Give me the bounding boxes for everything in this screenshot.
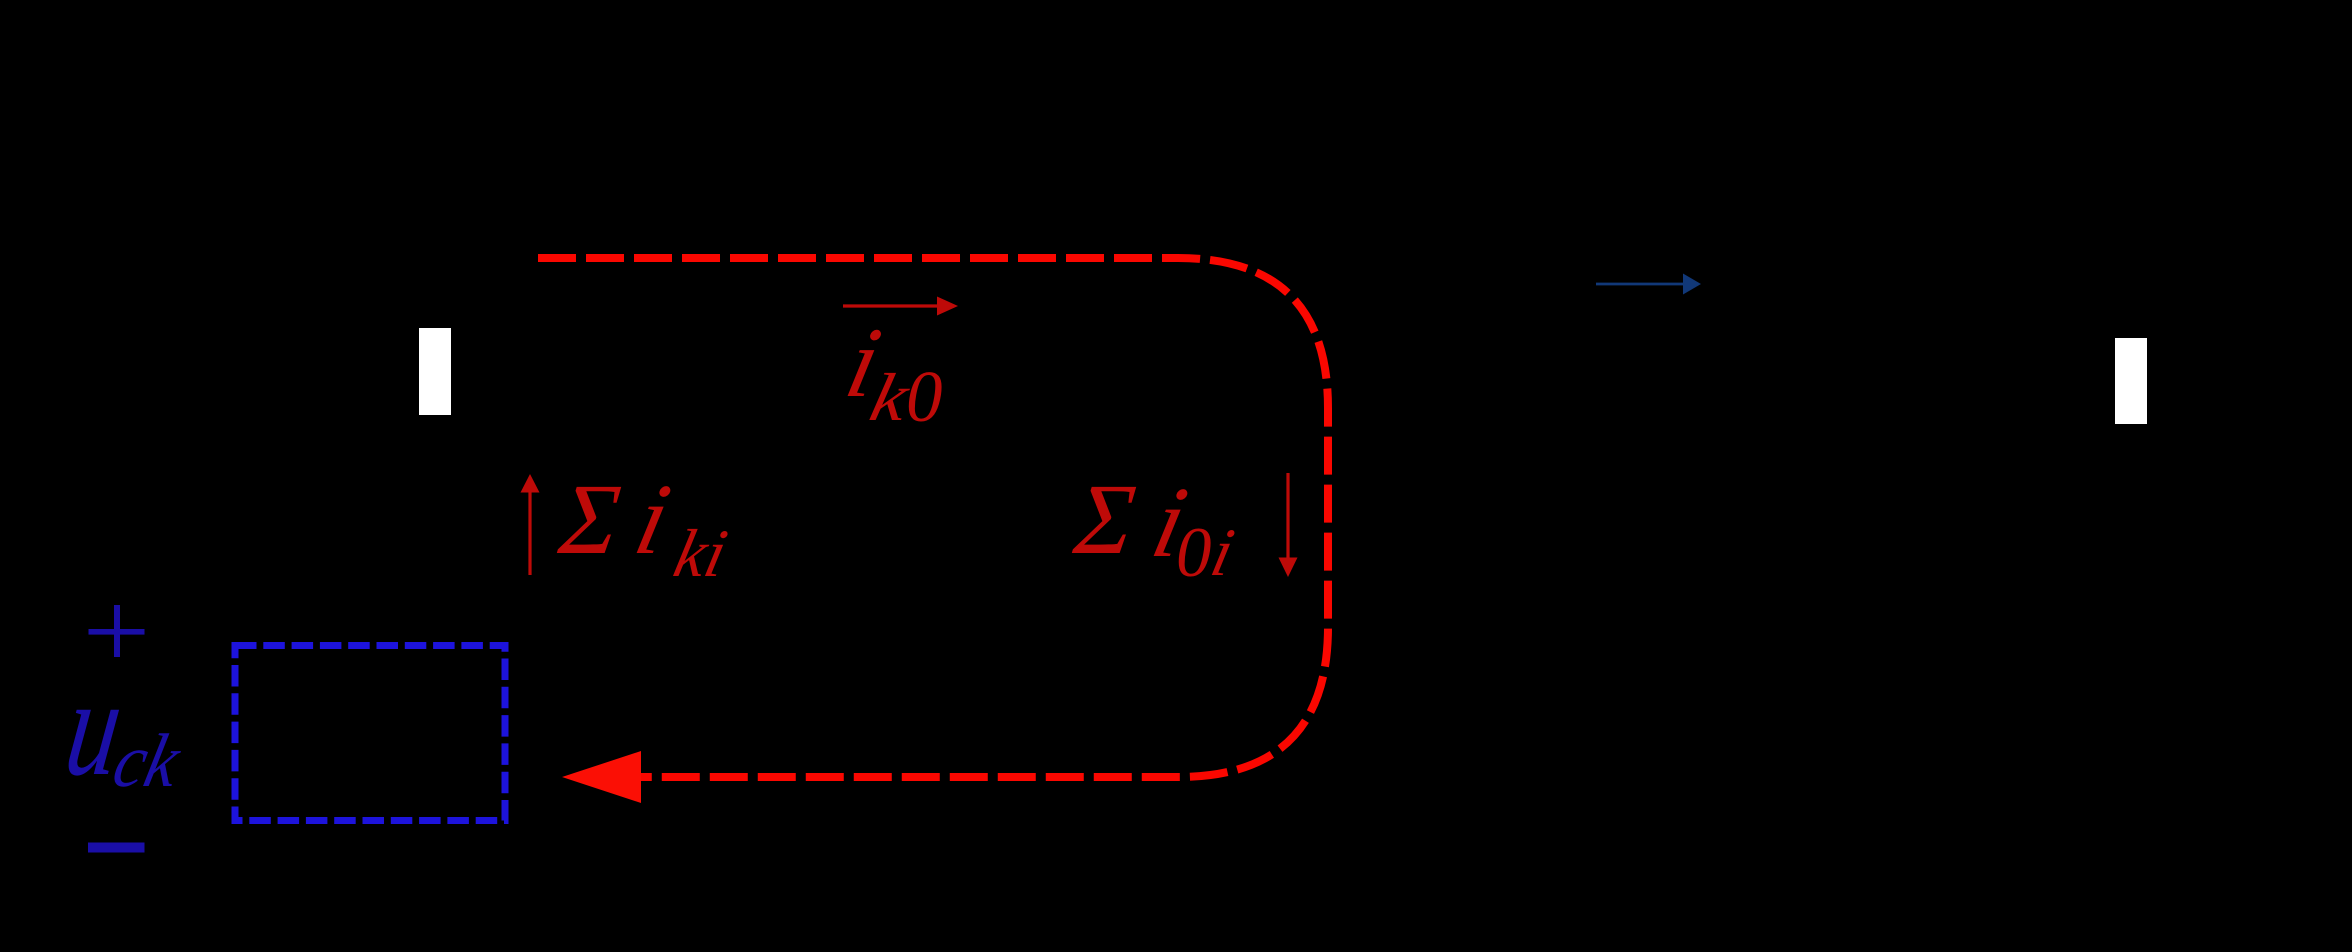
svg-text:Σ: Σ bbox=[1069, 463, 1141, 575]
svg-text:Σ: Σ bbox=[554, 463, 626, 575]
svg-text:0: 0 bbox=[906, 356, 943, 437]
